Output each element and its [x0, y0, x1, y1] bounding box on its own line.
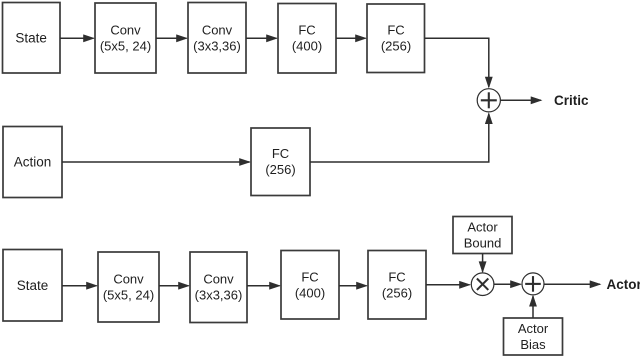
wire FC400 to FC256 (critic) [336, 37, 366, 39]
multiply junction circle (actor) [471, 273, 494, 296]
svg-text:(256): (256) [382, 286, 412, 301]
svg-text:(256): (256) [265, 162, 295, 177]
svg-text:(400): (400) [292, 39, 322, 54]
wire Conv2 to FC400 (critic) [246, 37, 277, 39]
svg-text:State: State [15, 31, 47, 46]
svg-text:FC: FC [298, 23, 315, 38]
block Action [3, 127, 62, 198]
svg-text:(5x5, 24): (5x5, 24) [100, 39, 151, 54]
block Conv (3x3,36) actor [190, 252, 247, 323]
svg-text:Conv: Conv [203, 272, 234, 287]
svg-text:Actor: Actor [467, 220, 498, 235]
block Actor Bound [453, 217, 512, 254]
svg-text:(5x5, 24): (5x5, 24) [103, 288, 154, 303]
svg-text:(256): (256) [381, 39, 411, 54]
svg-text:FC: FC [272, 146, 289, 161]
wire FC256 actor to multiply junction [426, 284, 470, 286]
block FC (256) action path [251, 128, 310, 196]
svg-text:FC: FC [387, 23, 404, 38]
svg-text:Critic: Critic [554, 93, 589, 108]
wire Actor Bias up into sum junction [532, 296, 534, 318]
block State (critic path) [3, 3, 61, 74]
label Critic [554, 93, 589, 108]
svg-text:FC: FC [388, 270, 405, 285]
svg-text:State: State [17, 278, 49, 293]
sum junction circle (critic) [477, 89, 500, 112]
arrow sum to Actor label [544, 283, 600, 285]
block FC (400) critic [278, 4, 336, 74]
wire Actor Bound down into multiply junction [482, 254, 484, 272]
wire Conv2 to FC400 (actor) [247, 285, 280, 287]
sum junction circle (actor) [522, 273, 544, 295]
svg-text:Bound: Bound [464, 236, 502, 251]
svg-text:(3x3,36): (3x3,36) [193, 39, 241, 54]
block FC (400) actor [281, 251, 339, 320]
svg-text:Conv: Conv [113, 272, 144, 287]
block State (actor path) [3, 250, 62, 322]
block Actor Bias [504, 318, 563, 355]
block FC (256) actor [368, 251, 426, 320]
svg-text:FC: FC [301, 270, 318, 285]
svg-text:(3x3,36): (3x3,36) [195, 288, 243, 303]
block Conv (3x3,36) critic [188, 3, 246, 74]
svg-text:(400): (400) [295, 286, 325, 301]
svg-text:Actor: Actor [518, 321, 549, 336]
svg-text:Action: Action [14, 155, 52, 170]
arrow multiply to sum (actor) [494, 283, 521, 285]
wire FC256 action elbow up into sum junction [310, 114, 489, 162]
svg-text:Conv: Conv [110, 23, 141, 38]
arrow sum to Critic label [500, 99, 541, 101]
svg-text:Bias: Bias [520, 337, 546, 352]
wire State to Conv1 (critic) [60, 37, 94, 39]
wire Action to FC256 (action path) [62, 161, 250, 163]
wire FC400 to FC256 (actor) [339, 285, 367, 287]
wire Conv1 to Conv2 (actor) [159, 285, 189, 287]
block Conv (5x5, 24) actor [98, 252, 159, 322]
wire Conv1 to Conv2 (critic) [156, 37, 187, 39]
svg-text:Conv: Conv [202, 23, 233, 38]
wire State to Conv1 (actor) [62, 285, 97, 287]
label Actor [607, 277, 640, 292]
block FC (256) critic [367, 4, 425, 73]
wire FC256 elbow down into sum junction [425, 38, 489, 87]
svg-text:Actor: Actor [607, 277, 640, 292]
block Conv (5x5, 24) critic [95, 3, 156, 73]
